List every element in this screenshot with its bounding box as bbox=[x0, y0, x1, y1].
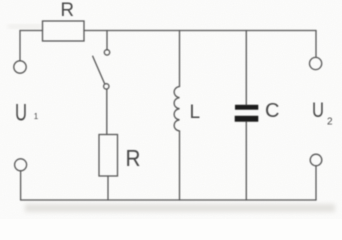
scan smudge bottom bbox=[25, 204, 335, 212]
switch S1 bottom contact bbox=[104, 84, 109, 89]
wire right upper stub bbox=[315, 31, 317, 58]
svg-text:R: R bbox=[61, 0, 75, 21]
inductor L coil bbox=[174, 87, 179, 132]
wire capacitor top stub bbox=[245, 31, 247, 105]
svg-text:U: U bbox=[15, 100, 27, 127]
wire switch top stub bbox=[106, 31, 108, 50]
wire inductor bottom stub bbox=[179, 131, 181, 200]
svg-text:L: L bbox=[190, 102, 201, 123]
wire left lower stub bbox=[20, 171, 22, 200]
wire right lower stub bbox=[315, 166, 317, 200]
switch S1 top contact bbox=[104, 50, 109, 55]
scan smudge left of resistor bbox=[8, 25, 42, 28]
svg-text:1: 1 bbox=[34, 112, 39, 121]
terminal U1 top bbox=[14, 61, 26, 73]
svg-text:R: R bbox=[126, 145, 141, 171]
wire inductor top stub bbox=[179, 31, 181, 87]
svg-text:2: 2 bbox=[327, 116, 333, 127]
svg-text:U: U bbox=[312, 99, 324, 122]
wire left upper stub bbox=[19, 31, 21, 61]
resistor R (shunt, vertical) bbox=[99, 135, 118, 177]
wire resistor bottom stub bbox=[107, 176, 109, 200]
wire switch to resistor bbox=[106, 89, 108, 134]
svg-text:C: C bbox=[265, 100, 279, 122]
terminal U2 top bbox=[310, 57, 322, 69]
wire top left segment bbox=[20, 30, 43, 32]
resistor R (series, top) bbox=[43, 21, 85, 41]
capacitor C plates bbox=[235, 105, 259, 122]
terminal U1 bottom bbox=[15, 159, 27, 171]
wire top main segment bbox=[84, 30, 316, 32]
wire capacitor bottom stub bbox=[245, 122, 247, 200]
wire bottom bbox=[21, 199, 316, 201]
terminal U2 bottom bbox=[310, 154, 322, 166]
switch S1 blade bbox=[93, 56, 105, 83]
